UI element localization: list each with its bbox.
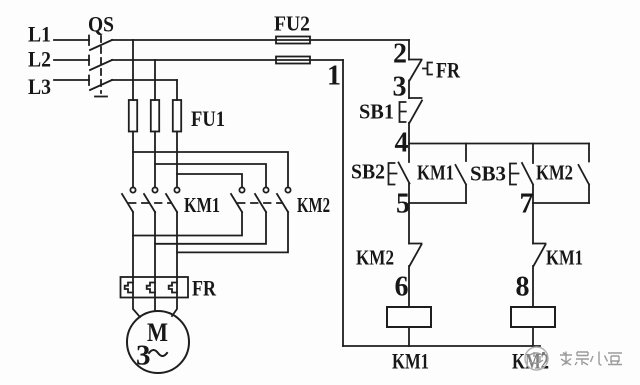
svg-text:SB2: SB2 <box>351 160 385 184</box>
svg-text:QS: QS <box>88 12 114 37</box>
wire node 6 stub <box>408 266 410 307</box>
contactor KM2 main contact pole 2 <box>255 187 269 212</box>
wire node 8 stub <box>532 266 534 307</box>
pushbutton SB3 (NO) <box>510 144 533 204</box>
svg-text:KM1: KM1 <box>184 193 220 217</box>
svg-text:5: 5 <box>396 189 410 220</box>
svg-text:FU1: FU1 <box>191 106 225 131</box>
wire L2 lead <box>54 59 89 61</box>
wire KM1 pole C bottom to motor <box>172 212 177 316</box>
wire L3 bus <box>112 79 177 81</box>
svg-text:FU2: FU2 <box>274 12 310 36</box>
contactor KM1 main contact pole A <box>122 187 136 212</box>
FR heater element A <box>125 283 133 293</box>
thermal relay FR heater block <box>121 277 189 298</box>
svg-text:7: 7 <box>520 189 534 220</box>
contact KM2 aux (NO) <box>579 144 590 204</box>
svg-text:4: 4 <box>395 128 409 159</box>
wire L1 lead <box>54 39 89 41</box>
switch QS pole 2 <box>89 56 112 71</box>
svg-text:KM2: KM2 <box>297 193 330 217</box>
FR heater element C <box>169 283 177 293</box>
wire KM1 pole B bottom to motor <box>154 212 156 311</box>
wire bottom rail <box>343 345 540 347</box>
contactor KM1 main contact pole B <box>144 187 158 212</box>
wire crossover B to KM2 pole 2 <box>155 164 266 188</box>
wire L1 bus <box>112 39 409 41</box>
wire node 4 stub <box>408 123 410 144</box>
wire phase B to KM1 <box>154 132 156 188</box>
svg-text:KM1: KM1 <box>417 161 454 185</box>
svg-text:FR: FR <box>436 58 461 83</box>
wire KM2 NC top stub <box>408 203 410 244</box>
wire crossover A to KM2 pole 3 <box>133 152 288 188</box>
svg-text:KM2: KM2 <box>536 161 573 185</box>
wire KM2 pole 2 bottom join <box>155 212 266 244</box>
coil KM1 <box>387 307 431 327</box>
svg-text:1: 1 <box>327 61 341 92</box>
switch QS linkage tick <box>95 96 107 98</box>
svg-text:3: 3 <box>136 340 151 372</box>
KM1 linkage dashes <box>129 202 171 204</box>
svg-text:SB1: SB1 <box>359 100 394 124</box>
svg-text:KM1: KM1 <box>392 349 429 374</box>
wire node 3 stub <box>408 81 410 99</box>
wire KM2 pole 1 bottom join <box>133 212 242 236</box>
svg-text:L2: L2 <box>28 47 51 72</box>
wire KM1 pole A bottom to motor <box>133 212 140 317</box>
switch QS pole 1 <box>89 36 112 51</box>
fuse FU1 phase B <box>151 100 159 132</box>
svg-text:L1: L1 <box>28 22 51 47</box>
wire coil KM1 bottom <box>408 327 410 346</box>
wire crossover C to KM2 pole 1 <box>177 174 242 188</box>
wire KM1 NC top stub <box>532 203 534 244</box>
contactor KM2 main contact pole 1 <box>231 187 245 212</box>
wire coil KM2 bottom <box>532 327 534 346</box>
svg-text:8: 8 <box>516 272 530 303</box>
wire phase B drop <box>154 60 156 100</box>
wire control rail top (node 2) <box>408 40 410 60</box>
coil KM2 <box>511 307 555 327</box>
svg-text:KM2: KM2 <box>356 246 394 270</box>
wire left rail node 1 <box>342 60 344 346</box>
wire KM2 pole 3 bottom join <box>177 212 288 252</box>
fuse FU2 phase 1 <box>276 37 310 44</box>
svg-text:KM1: KM1 <box>546 246 583 270</box>
KM2 linkage dashes <box>238 202 281 204</box>
svg-text:L3: L3 <box>28 74 51 99</box>
svg-text:FR: FR <box>192 276 217 301</box>
wire node 7 bus <box>533 202 589 204</box>
contactor KM2 main contact pole 3 <box>277 187 291 212</box>
FR heater element B <box>147 283 155 293</box>
svg-text:3: 3 <box>393 72 407 103</box>
wire L2 bus <box>112 59 343 61</box>
wire phase A drop <box>132 40 134 100</box>
fuse FU2 phase 2 <box>276 57 310 64</box>
switch QS linkage <box>100 36 102 93</box>
watermark logo <box>525 347 548 370</box>
contactor KM1 main contact pole C <box>166 187 180 212</box>
svg-text:2: 2 <box>393 39 407 70</box>
switch QS pole 3 <box>89 76 112 91</box>
wire phase C drop <box>176 80 178 100</box>
wire phase C to KM1 <box>176 132 178 188</box>
wire phase A to KM1 <box>132 132 134 188</box>
wire L3 lead <box>54 79 89 81</box>
motor M <box>127 311 189 373</box>
pushbutton SB2 (NO) <box>389 144 410 204</box>
contact KM1 NC interlock <box>533 244 546 267</box>
contact KM2 NC interlock <box>409 244 422 267</box>
wire node 4 bus <box>409 143 589 145</box>
svg-text:SB3: SB3 <box>470 162 506 186</box>
watermark text <box>560 352 622 366</box>
motor tilde <box>149 350 167 356</box>
wire node 5 bus <box>409 202 466 204</box>
pushbutton SB1 (NC) <box>400 98 423 123</box>
fuse FU1 phase C <box>173 100 181 132</box>
fuse FU1 phase A <box>129 100 137 132</box>
svg-text:6: 6 <box>395 272 409 303</box>
thermal contact FR (NC) <box>409 60 432 81</box>
contact KM1 aux (NO) <box>456 144 467 204</box>
